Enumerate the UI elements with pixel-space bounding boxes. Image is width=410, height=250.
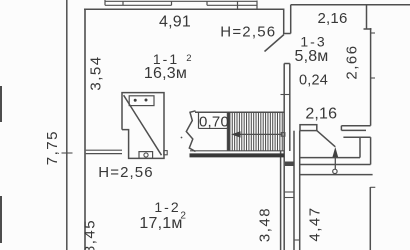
svg-text:1-2: 1-2 (154, 199, 180, 215)
scanner edge streak lower (0, 196, 2, 243)
room divider stub upper line (86, 149, 122, 151)
stair shaft west wall line b (283, 151, 285, 250)
corridor line 3 (300, 174, 373, 176)
svg-text:H=2,56: H=2,56 (220, 24, 276, 41)
left dimension line (66, 0, 68, 250)
corridor top wall left box (300, 125, 317, 131)
stairs top line (195, 111, 284, 113)
label box left edge 0,70 (198, 112, 200, 128)
room 1-3 west wall right line (289, 64, 291, 152)
label box underline 0,70 (199, 127, 228, 129)
dimension tick on left line (62, 152, 73, 154)
window tick b (122, 1, 124, 5)
corridor wall lower line 2 (343, 136, 370, 138)
room 1-3 west wall top cap (284, 63, 290, 65)
stair band thick line (190, 153, 285, 157)
balcony bay top line (291, 4, 410, 6)
speck near break (181, 137, 183, 139)
svg-text:3,48: 3,48 (256, 207, 273, 242)
shaft wall tick 3 (294, 239, 300, 241)
balcony bay left vertical (290, 5, 292, 34)
svg-text:0,24: 0,24 (299, 73, 328, 89)
top outer wall line (105, 0, 257, 2)
svg-text:7,75: 7,75 (44, 130, 61, 165)
stair band thin line (190, 150, 284, 152)
door leaf room 1-3 (265, 35, 285, 52)
top inner wall line (84, 9, 291, 33)
corridor top wall upper line right (341, 125, 370, 127)
furniture dot right (145, 99, 148, 102)
entry arrow circle (333, 169, 337, 173)
shaft cross tick 2 (284, 197, 294, 199)
corridor wall cap right jamb (340, 126, 342, 131)
entry arrow stem (334, 157, 336, 169)
lower right outer wall (369, 187, 371, 250)
vestibule wall vertical b (370, 137, 372, 164)
svg-text:2,66: 2,66 (344, 44, 361, 79)
right outer wall (370, 28, 372, 126)
window tick d (206, 1, 208, 5)
balcony bay bottom right sill (364, 28, 372, 30)
stair shaft west wall line a (280, 151, 282, 250)
svg-text:3,54: 3,54 (88, 55, 105, 90)
furniture bottom circle (144, 153, 148, 157)
svg-text:17,1м: 17,1м (139, 215, 182, 232)
svg-text:2,16: 2,16 (305, 106, 337, 123)
window tick c (171, 1, 173, 5)
svg-text:2: 2 (186, 53, 191, 64)
wall junction dark block (285, 162, 294, 167)
scanner edge streak upper (0, 86, 2, 122)
entry door leaf (317, 131, 336, 147)
left wall (84, 9, 86, 250)
window tick e (237, 1, 239, 9)
window tick a (104, 0, 106, 5)
furniture top inner box (129, 96, 154, 106)
svg-text:H=2,56: H=2,56 (98, 164, 153, 181)
room divider stub lower line (86, 153, 122, 155)
right wall tick upper (371, 32, 375, 34)
furniture bottom box (139, 152, 153, 159)
top middle wall line left (105, 4, 172, 6)
vestibule wall vertical a (359, 137, 361, 157)
stair arrow line (234, 133, 282, 135)
corridor line 1 (300, 157, 360, 159)
stairs treads (228, 112, 283, 151)
svg-text:0,70: 0,70 (199, 114, 229, 131)
svg-text:4,91: 4,91 (159, 14, 191, 31)
shaft east wall line a (293, 131, 295, 250)
balcony bay right vertical (366, 5, 368, 29)
shaft east wall line b (299, 131, 301, 250)
wall break symbol (186, 111, 195, 152)
stair arrow tail square (281, 133, 285, 137)
svg-text:5,8м: 5,8м (294, 48, 328, 65)
first tread dark bar (227, 112, 230, 151)
svg-text:16,3м: 16,3м (144, 65, 187, 82)
room 1-3 west wall left line (283, 64, 285, 152)
svg-text:8,45: 8,45 (82, 219, 99, 250)
window tick f (256, 1, 258, 10)
stair arrow head (231, 131, 240, 137)
furniture diagonal (124, 95, 162, 155)
entry arrow head (332, 147, 338, 157)
right wall tick lower (371, 77, 375, 79)
lower right wall tick (370, 186, 375, 188)
corridor line 2 (300, 164, 371, 166)
corridor top wall lower line right (341, 129, 366, 131)
furniture right nub (164, 151, 167, 155)
shaft cross tick 1 (284, 191, 294, 193)
furniture dot left (134, 99, 137, 102)
top middle wall line right (207, 4, 257, 6)
furniture outline (122, 93, 164, 159)
room 1-3 west wall tick (281, 94, 290, 96)
svg-text:4,47: 4,47 (307, 206, 324, 241)
svg-text:2,16: 2,16 (318, 10, 348, 27)
